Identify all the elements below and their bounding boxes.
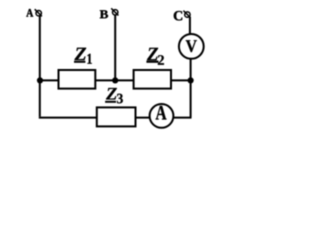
impedance box Z2 [134, 70, 171, 89]
junction node at B wire and middle rail [112, 77, 118, 83]
label Z3 [105, 88, 123, 103]
wire: bottom rail from left corner to right corner [39, 117, 192, 119]
junction node at A wire and middle rail [37, 77, 43, 83]
label Z2 [146, 48, 164, 65]
wire: from terminal B down to middle rail [114, 15, 116, 81]
impedance box Z3 [97, 107, 136, 126]
terminal C [183, 11, 190, 18]
impedance box Z1 [59, 70, 96, 89]
wire: middle rail from node A to node at voltmeter branch [40, 79, 191, 81]
junction node at voltmeter branch and middle rail [188, 77, 194, 83]
wire: from terminal C down to voltmeter [189, 17, 191, 35]
label B [100, 10, 108, 18]
terminal B [111, 8, 118, 15]
label A [26, 9, 33, 17]
label Z1 [74, 48, 92, 64]
wire: from terminal A down the left side to the bottom-left corner [39, 16, 41, 117]
ammeter A [150, 104, 174, 128]
terminal A [35, 9, 42, 16]
label C [174, 11, 182, 20]
wire: from voltmeter bottom down the right side to bottom rail [190, 59, 192, 117]
voltmeter V [179, 34, 204, 59]
